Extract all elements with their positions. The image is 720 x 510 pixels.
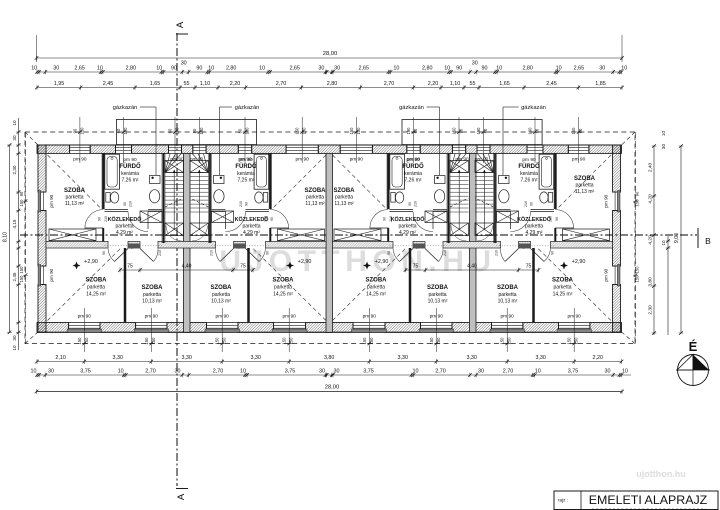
svg-text:4,20: 4,20 — [648, 235, 654, 245]
svg-text:30: 30 — [661, 144, 666, 150]
svg-text:É: É — [689, 339, 698, 354]
svg-text:30: 30 — [472, 61, 478, 67]
svg-text:90: 90 — [456, 66, 462, 72]
svg-text:150: 150 — [356, 127, 361, 135]
svg-text:60: 60 — [413, 128, 418, 133]
svg-text:EMELETI ALAPRAJZ: EMELETI ALAPRAJZ — [589, 493, 708, 507]
unit 3 stairs — [450, 161, 469, 173]
svg-text:10: 10 — [118, 369, 124, 375]
svg-text:3,75: 3,75 — [285, 369, 296, 375]
top dimension row 1 total 28,00 — [37, 57, 623, 59]
svg-text:10,13 m²: 10,13 m² — [211, 299, 231, 305]
svg-text:2,70: 2,70 — [384, 81, 395, 87]
svg-text:3,30: 3,30 — [113, 355, 124, 361]
unit 4 doors — [510, 212, 512, 230]
top dimension row 3 — [37, 87, 623, 89]
svg-text:9,00: 9,00 — [674, 233, 680, 243]
svg-text:SZOBA: SZOBA — [211, 285, 233, 291]
svg-text:SZOBA: SZOBA — [86, 278, 108, 284]
svg-text:SZOBA: SZOBA — [334, 188, 356, 194]
svg-text:kerámia: kerámia — [520, 171, 538, 177]
svg-text:parketta: parketta — [274, 285, 292, 291]
svg-text:gázkazán: gázkazán — [235, 105, 260, 111]
svg-text:gázkazán: gázkazán — [521, 105, 546, 111]
svg-text:3,30: 3,30 — [466, 355, 477, 361]
svg-text:+2,90: +2,90 — [375, 259, 389, 265]
svg-text:+2,90: +2,90 — [298, 259, 312, 265]
unit 1 interior partitions — [102, 153, 104, 209]
svg-text:75: 75 — [413, 264, 419, 270]
svg-text:2,45: 2,45 — [103, 81, 114, 87]
svg-text:90: 90 — [383, 217, 387, 221]
svg-text:2,20: 2,20 — [428, 81, 439, 87]
svg-text:190: 190 — [476, 127, 481, 135]
middle wall — [46, 242, 108, 249]
svg-text:150: 150 — [635, 266, 640, 274]
svg-text:10,13 m²: 10,13 m² — [142, 299, 162, 305]
svg-text:3,80: 3,80 — [324, 355, 335, 361]
svg-text:2,65: 2,65 — [74, 66, 85, 72]
svg-text:2,30: 2,30 — [648, 305, 654, 315]
svg-text:2,10: 2,10 — [55, 355, 66, 361]
svg-text:60: 60 — [535, 128, 540, 133]
svg-text:30: 30 — [175, 369, 181, 375]
svg-text:55: 55 — [470, 81, 476, 87]
svg-text:parketta: parketta — [335, 195, 353, 201]
svg-text:10: 10 — [661, 240, 666, 246]
svg-text:90: 90 — [192, 128, 197, 133]
svg-text:2,80: 2,80 — [422, 66, 433, 72]
svg-text:KÖZLEKEDŐ: KÖZLEKEDŐ — [391, 216, 425, 223]
svg-text:rajz :: rajz : — [558, 498, 568, 503]
svg-text:60: 60 — [238, 128, 243, 133]
svg-text:2,30: 2,30 — [12, 165, 17, 174]
svg-text:14,25 m²: 14,25 m² — [553, 292, 573, 298]
svg-text:90: 90 — [72, 128, 77, 133]
top dimension row 2 — [37, 71, 623, 73]
svg-text:90: 90 — [98, 217, 102, 221]
svg-text:150: 150 — [362, 337, 367, 345]
svg-text:150: 150 — [635, 275, 640, 283]
svg-text:190: 190 — [175, 127, 180, 135]
svg-text:2,80: 2,80 — [327, 81, 338, 87]
svg-text:3,75: 3,75 — [363, 369, 374, 375]
svg-text:10: 10 — [413, 369, 419, 375]
svg-text:2,45: 2,45 — [546, 81, 557, 87]
svg-text:14,25 m²: 14,25 m² — [86, 292, 106, 298]
svg-text:10: 10 — [622, 369, 628, 375]
svg-text:150: 150 — [222, 337, 227, 345]
svg-text:150: 150 — [507, 337, 512, 345]
svg-text:30: 30 — [478, 369, 484, 375]
unit 2 bathroom fixtures — [254, 154, 269, 189]
svg-text:1,85: 1,85 — [595, 81, 606, 87]
svg-text:150: 150 — [567, 337, 572, 345]
svg-text:3,75: 3,75 — [568, 369, 579, 375]
svg-text:150: 150 — [19, 199, 24, 207]
svg-text:pm 90: pm 90 — [170, 157, 184, 163]
svg-text:kerámia: kerámia — [121, 171, 139, 177]
svg-text:90: 90 — [123, 202, 127, 206]
svg-text:8,10: 8,10 — [3, 232, 9, 242]
svg-text:30: 30 — [53, 66, 59, 72]
svg-text:90: 90 — [408, 202, 412, 206]
svg-text:10,13 m²: 10,13 m² — [428, 299, 448, 305]
svg-text:1,65: 1,65 — [150, 81, 161, 87]
svg-text:7,26 m²: 7,26 m² — [521, 178, 538, 184]
svg-text:90: 90 — [578, 128, 583, 133]
unit 3 bathroom fixtures — [390, 154, 405, 189]
svg-text:150: 150 — [500, 337, 505, 345]
svg-text:parketta: parketta — [306, 195, 324, 201]
svg-text:parketta: parketta — [498, 292, 516, 298]
svg-text:210: 210 — [129, 201, 133, 207]
svg-text:150: 150 — [282, 337, 287, 345]
unit 3 interior partitions — [387, 153, 389, 209]
svg-text:1,65: 1,65 — [499, 81, 510, 87]
svg-text:150: 150 — [144, 337, 149, 345]
svg-text:2,40: 2,40 — [648, 163, 654, 173]
svg-text:150: 150 — [574, 337, 579, 345]
svg-text:SZOBA: SZOBA — [427, 285, 449, 291]
svg-text:parketta: parketta — [212, 292, 230, 298]
svg-text:10: 10 — [12, 120, 17, 126]
unit 2 interior partitions — [269, 153, 271, 209]
svg-text:55: 55 — [184, 81, 190, 87]
unit 3 slope dashed lines — [333, 155, 387, 209]
svg-text:3,80: 3,80 — [648, 277, 654, 287]
svg-text:pm 90: pm 90 — [604, 194, 609, 207]
svg-text:150: 150 — [19, 266, 24, 274]
svg-text:190: 190 — [528, 127, 533, 135]
title block — [554, 491, 718, 510]
unit 1 doors — [147, 212, 149, 230]
svg-text:UJOTTHON.HU: UJOTTHON.HU — [219, 245, 496, 278]
hip lines — [25, 132, 38, 145]
svg-text:4,29 m²: 4,29 m² — [116, 230, 133, 236]
left dim columns — [9, 145, 11, 332]
svg-text:FÜRDŐ: FÜRDŐ — [518, 163, 540, 170]
svg-text:10: 10 — [156, 66, 162, 72]
svg-text:90: 90 — [387, 251, 391, 255]
svg-text:190: 190 — [245, 127, 250, 135]
svg-text:10: 10 — [393, 66, 399, 72]
svg-text:150: 150 — [429, 337, 434, 345]
svg-text:parketta: parketta — [525, 224, 543, 230]
unit 2 doors — [225, 212, 227, 230]
svg-text:2,65: 2,65 — [289, 66, 300, 72]
svg-text:14,25 m²: 14,25 m² — [366, 292, 386, 298]
svg-text:10: 10 — [496, 66, 502, 72]
svg-text:30: 30 — [12, 135, 17, 141]
svg-text:pm 90: pm 90 — [455, 157, 469, 163]
unit 4 slope dashed lines — [558, 155, 612, 209]
bottom total 28,00 — [37, 391, 623, 393]
svg-text:4,15: 4,15 — [12, 219, 17, 228]
svg-text:parketta: parketta — [367, 285, 385, 291]
svg-text:FÜRDŐ: FÜRDŐ — [119, 163, 141, 170]
svg-text:2,45: 2,45 — [12, 272, 17, 281]
svg-text:150: 150 — [151, 337, 156, 345]
svg-text:10,13 m²: 10,13 m² — [498, 299, 518, 305]
svg-text:10: 10 — [208, 66, 214, 72]
svg-text:28,00: 28,00 — [325, 385, 340, 391]
svg-text:30: 30 — [334, 66, 340, 72]
svg-text:30: 30 — [12, 335, 17, 341]
svg-text:210: 210 — [210, 250, 214, 256]
svg-text:150: 150 — [79, 127, 84, 135]
svg-text:2,80: 2,80 — [522, 66, 533, 72]
svg-text:14,25 m²: 14,25 m² — [273, 292, 293, 298]
svg-text:2,65: 2,65 — [574, 66, 585, 72]
svg-text:150: 150 — [199, 127, 204, 135]
svg-text:210: 210 — [443, 250, 447, 256]
svg-text:10: 10 — [31, 369, 37, 375]
svg-text:3,30: 3,30 — [181, 355, 192, 361]
window dim chains top — [79, 117, 81, 163]
svg-text:pm 90: pm 90 — [190, 157, 204, 163]
svg-text:4,40: 4,40 — [467, 264, 477, 270]
unit 1 bathroom fixtures — [105, 154, 120, 189]
svg-text:SZOBA: SZOBA — [64, 188, 86, 194]
svg-text:10: 10 — [259, 66, 265, 72]
party walls gray — [184, 153, 191, 332]
svg-text:SZOBA: SZOBA — [305, 188, 327, 194]
bottom dimension row B — [37, 374, 632, 376]
svg-text:90: 90 — [482, 66, 488, 72]
svg-text:90: 90 — [635, 191, 640, 196]
svg-text:10: 10 — [621, 66, 627, 72]
svg-text:2,70: 2,70 — [213, 369, 224, 375]
svg-text:SZOBA: SZOBA — [552, 278, 574, 284]
svg-text:11,13 m²: 11,13 m² — [65, 201, 85, 207]
svg-text:75: 75 — [240, 264, 246, 270]
windows top/bottom walls — [70, 144, 91, 146]
svg-text:90: 90 — [459, 128, 464, 133]
svg-text:7,26 m²: 7,26 m² — [405, 178, 422, 184]
svg-text:150: 150 — [571, 127, 576, 135]
svg-text:90: 90 — [171, 66, 177, 72]
svg-text:150: 150 — [349, 127, 354, 135]
svg-text:3,30: 3,30 — [250, 355, 261, 361]
svg-text:SZOBA: SZOBA — [497, 285, 519, 291]
svg-text:11,13 m²: 11,13 m² — [575, 189, 595, 195]
svg-text:150: 150 — [84, 337, 89, 345]
roof outline dashed — [25, 132, 635, 344]
svg-text:30: 30 — [48, 369, 54, 375]
svg-text:30: 30 — [334, 369, 340, 375]
svg-text:90: 90 — [551, 251, 555, 255]
unit 1 stairs — [165, 161, 184, 173]
svg-text:30: 30 — [181, 61, 187, 67]
svg-text:75: 75 — [127, 264, 133, 270]
svg-text:parketta: parketta — [87, 285, 105, 291]
svg-text:2,70: 2,70 — [435, 369, 446, 375]
svg-text:30: 30 — [599, 66, 605, 72]
unit 2 slope dashed lines — [273, 155, 327, 209]
svg-text:75: 75 — [526, 264, 532, 270]
svg-text:1,95: 1,95 — [54, 81, 65, 87]
svg-text:11,13 m²: 11,13 m² — [334, 201, 354, 207]
svg-text:10: 10 — [97, 66, 103, 72]
svg-text:7,26 m²: 7,26 m² — [122, 178, 139, 184]
svg-text:pm 90: pm 90 — [49, 268, 54, 281]
svg-text:190: 190 — [406, 127, 411, 135]
svg-text:90: 90 — [266, 251, 270, 255]
svg-text:pm 90: pm 90 — [475, 157, 489, 163]
svg-text:11,13 m²: 11,13 m² — [305, 201, 325, 207]
svg-text:SZOBA: SZOBA — [366, 278, 388, 284]
svg-text:FÜRDŐ: FÜRDŐ — [402, 163, 424, 170]
svg-text:10: 10 — [556, 66, 562, 72]
svg-text:parketta: parketta — [398, 224, 416, 230]
svg-text:210: 210 — [158, 250, 162, 256]
svg-text:210: 210 — [524, 201, 528, 207]
svg-text:210: 210 — [239, 201, 243, 207]
corridor dim lines y=270 — [120, 269, 253, 271]
left gable wall — [38, 145, 46, 192]
svg-text:150: 150 — [77, 337, 82, 345]
unit 4 stairs — [475, 161, 494, 173]
svg-text:2,70: 2,70 — [145, 369, 156, 375]
svg-text:150: 150 — [19, 275, 24, 283]
svg-text:10: 10 — [12, 345, 17, 351]
svg-text:SZOBA: SZOBA — [273, 278, 295, 284]
svg-text:3,30: 3,30 — [398, 355, 409, 361]
svg-text:150: 150 — [289, 337, 294, 345]
unit 4 interior partitions — [554, 153, 556, 209]
svg-text:7,25 m²: 7,25 m² — [238, 178, 255, 184]
svg-text:4,20: 4,20 — [648, 194, 654, 204]
svg-text:2,80: 2,80 — [226, 66, 237, 72]
svg-text:2,20: 2,20 — [230, 81, 241, 87]
svg-text:4,29 m²: 4,29 m² — [526, 230, 543, 236]
svg-text:+2,90: +2,90 — [572, 259, 586, 265]
window dim chains bottom — [83, 308, 85, 352]
svg-text:150: 150 — [295, 127, 300, 135]
svg-text:3,30: 3,30 — [535, 355, 546, 361]
svg-text:10: 10 — [661, 131, 666, 137]
svg-text:pm 90: pm 90 — [604, 268, 609, 281]
svg-text:210: 210 — [414, 201, 418, 207]
svg-text:B: B — [705, 236, 711, 246]
svg-text:150: 150 — [302, 127, 307, 135]
svg-text:parketta: parketta — [242, 224, 260, 230]
svg-text:SZOBA: SZOBA — [142, 285, 164, 291]
svg-text:FÜRDŐ: FÜRDŐ — [235, 163, 257, 170]
svg-text:150: 150 — [436, 337, 441, 345]
svg-text:A: A — [176, 493, 187, 500]
svg-text:KÖZLEKEDŐ: KÖZLEKEDŐ — [108, 216, 142, 223]
svg-text:1,10: 1,10 — [200, 81, 211, 87]
svg-text:10: 10 — [444, 66, 450, 72]
svg-text:60: 60 — [483, 128, 488, 133]
svg-text:90: 90 — [555, 217, 559, 221]
svg-text:150: 150 — [369, 337, 374, 345]
svg-text:10: 10 — [31, 66, 37, 72]
svg-text:150: 150 — [635, 199, 640, 207]
svg-text:4,29 m²: 4,29 m² — [243, 230, 260, 236]
svg-text:30: 30 — [319, 369, 325, 375]
section line B-B — [20, 234, 697, 236]
svg-text:90: 90 — [270, 217, 274, 221]
svg-text:2,80: 2,80 — [126, 66, 137, 72]
svg-text:kerámia: kerámia — [404, 171, 422, 177]
right gable wall — [613, 145, 621, 192]
svg-text:A: A — [175, 21, 186, 28]
svg-text:parketta: parketta — [553, 285, 571, 291]
svg-text:30: 30 — [605, 369, 611, 375]
svg-text:parketta: parketta — [575, 183, 593, 189]
bottom dimension row A — [37, 361, 623, 363]
unit 3 doors — [432, 212, 434, 230]
unit 1 slope dashed lines — [48, 155, 102, 209]
svg-text:28,00: 28,00 — [323, 51, 338, 57]
svg-text:pm 90: pm 90 — [522, 157, 536, 163]
svg-text:SZOBA: SZOBA — [574, 176, 596, 182]
svg-text:60: 60 — [168, 128, 173, 133]
svg-text:KÖZLEKEDŐ: KÖZLEKEDŐ — [235, 216, 269, 223]
svg-text:90: 90 — [530, 202, 534, 206]
svg-text:ujotthon.hu: ujotthon.hu — [636, 469, 685, 479]
svg-text:150: 150 — [452, 127, 457, 135]
svg-text:parketta: parketta — [115, 224, 133, 230]
svg-text:parketta: parketta — [428, 292, 446, 298]
svg-text:210: 210 — [495, 250, 499, 256]
svg-text:1,10: 1,10 — [450, 81, 461, 87]
svg-text:4,40: 4,40 — [182, 264, 192, 270]
svg-text:10: 10 — [240, 369, 246, 375]
svg-text:gázkazán: gázkazán — [113, 105, 138, 111]
section line A-A — [176, 33, 178, 486]
svg-text:90: 90 — [196, 66, 202, 72]
svg-text:60: 60 — [116, 128, 121, 133]
svg-text:3,75: 3,75 — [80, 369, 91, 375]
svg-text:2,70: 2,70 — [276, 81, 287, 87]
svg-text:10: 10 — [535, 369, 541, 375]
svg-text:pm 90: pm 90 — [49, 194, 54, 207]
svg-text:2,65: 2,65 — [359, 66, 370, 72]
svg-text:4,29 m²: 4,29 m² — [399, 230, 416, 236]
svg-text:90: 90 — [102, 251, 106, 255]
svg-text:30: 30 — [318, 66, 324, 72]
unit 4 bathroom fixtures — [539, 154, 554, 189]
svg-text:+2,90: +2,90 — [84, 259, 98, 265]
exterior walls — [37, 145, 70, 153]
svg-text:2,70: 2,70 — [503, 369, 514, 375]
svg-text:190: 190 — [123, 127, 128, 135]
svg-text:90: 90 — [245, 202, 249, 206]
svg-text:parketta: parketta — [143, 292, 161, 298]
boiler niche boxes — [116, 120, 256, 145]
svg-text:parketta: parketta — [65, 195, 83, 201]
svg-text:2,20: 2,20 — [593, 355, 604, 361]
svg-text:pm 90: pm 90 — [123, 157, 137, 163]
svg-text:90: 90 — [19, 191, 24, 196]
unit 2 stairs — [190, 161, 209, 173]
svg-text:kerámia: kerámia — [237, 171, 255, 177]
svg-text:KÖZLEKEDŐ: KÖZLEKEDŐ — [517, 216, 551, 223]
svg-text:150: 150 — [215, 337, 220, 345]
svg-text:gázkazán: gázkazán — [399, 105, 424, 111]
right dim columns — [635, 132, 637, 344]
